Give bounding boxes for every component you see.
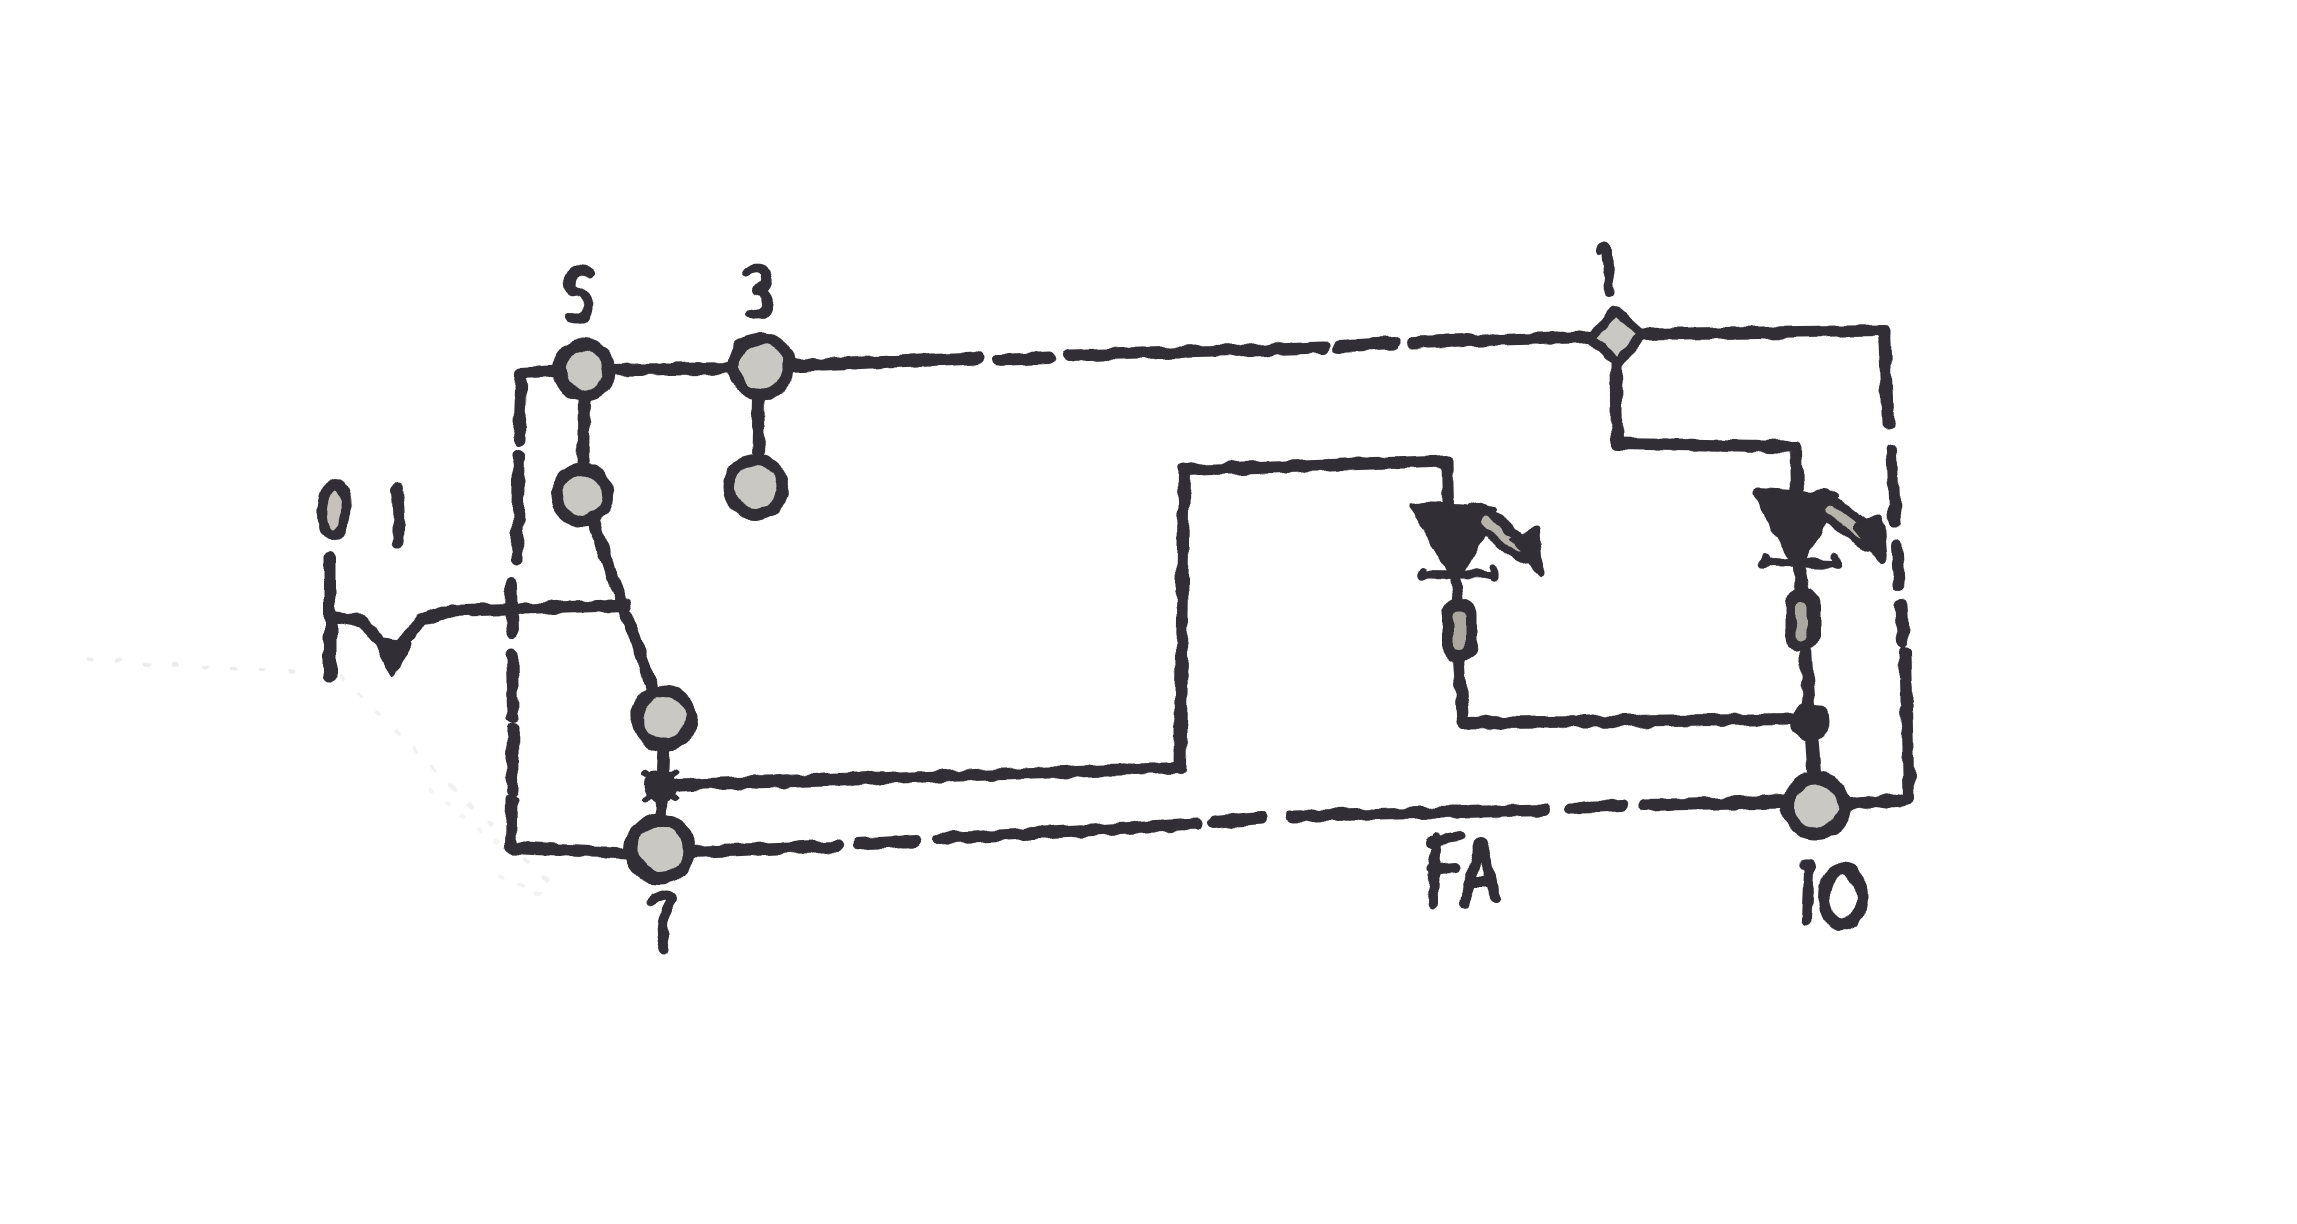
wire left of T5 and corner [517, 371, 559, 560]
wire D2 to R2 [1799, 568, 1803, 594]
wire R1 down and right to J2 [1459, 659, 1794, 723]
D1 cathode bar [1421, 568, 1495, 577]
terminal 1 [1591, 311, 1642, 364]
wire vertical tick crossing [511, 584, 512, 633]
wire J2 to T10 [1812, 738, 1815, 780]
resistor R2 [1788, 591, 1818, 649]
outer right dashed vertical [1892, 452, 1906, 700]
bottom dashed wire T7 to T10 (net FA) [692, 802, 1783, 852]
faint pencil mark left [88, 660, 300, 672]
terminal 3 [733, 338, 789, 394]
wire D1 to R1 [1456, 582, 1458, 604]
wire left vertical [324, 556, 336, 676]
connector dash [397, 490, 399, 543]
label 5 [569, 270, 590, 318]
label 10 [1804, 862, 1809, 920]
D1 arrow head [1512, 530, 1540, 573]
wire J1 to LED D1 (staircase) [678, 461, 1448, 785]
wire T1 down right down to D2 [1616, 364, 1797, 494]
faint pencil mark diagonal [340, 676, 552, 886]
D2 arrow head [1856, 518, 1884, 561]
wire vertical dashed to bottom [511, 655, 513, 846]
terminal below 5 [556, 469, 608, 521]
label FA [1430, 836, 1496, 903]
mid terminal [637, 691, 691, 745]
wire T5 to T3 [608, 368, 733, 370]
D1 arrow shaft [1478, 514, 1523, 551]
label 7 [652, 896, 673, 950]
switch arm diagonal [592, 518, 655, 696]
terminal 7 [631, 820, 689, 878]
wire mid terminal to T7 [661, 744, 664, 822]
resistor R1 [1445, 601, 1475, 659]
wire stub T3 down [758, 394, 759, 460]
faint mark near 7 [430, 790, 505, 850]
outer right lower corner into T10 [1845, 706, 1909, 804]
wire bottom into T7 [511, 848, 628, 853]
D2 cathode bar [1763, 556, 1837, 566]
label 1 [1600, 247, 1610, 292]
D2 arrow shaft [1822, 502, 1867, 537]
arrowhead at V bottom [374, 639, 410, 675]
photodiode D1 triangle [1413, 506, 1494, 580]
terminal below 3 [729, 460, 783, 514]
wire with V notch to switch arm [331, 605, 627, 656]
photodiode D2 triangle [1756, 492, 1836, 567]
junction J2 [1793, 705, 1827, 739]
wire T3 to T1 (dashed) [790, 337, 1590, 366]
faint pencil mark low [500, 878, 555, 900]
wire stub T5 down [583, 396, 584, 470]
label 3 [747, 268, 768, 315]
terminal 10 [1788, 778, 1844, 834]
connector pin P1 (oval) [320, 483, 348, 537]
terminal 5 [559, 345, 609, 395]
wire R2 down to J2 [1805, 649, 1809, 704]
wire T1 right to outer corner [1643, 331, 1888, 422]
junction J1 [646, 772, 674, 800]
